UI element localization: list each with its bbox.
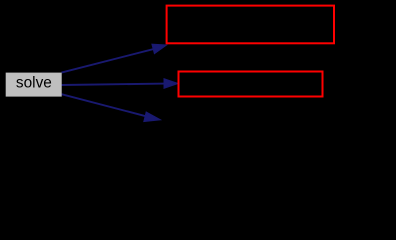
edge solve->N2 [62,79,179,89]
node N2 (red box, hidden label) [179,72,323,97]
edge solve->N3 [62,94,161,121]
node N1 (red box, hidden label) [167,6,334,44]
node solve (current, gray) [6,73,62,97]
edge solve->N1 [62,44,167,72]
svg-text:solve: solve [16,75,52,92]
